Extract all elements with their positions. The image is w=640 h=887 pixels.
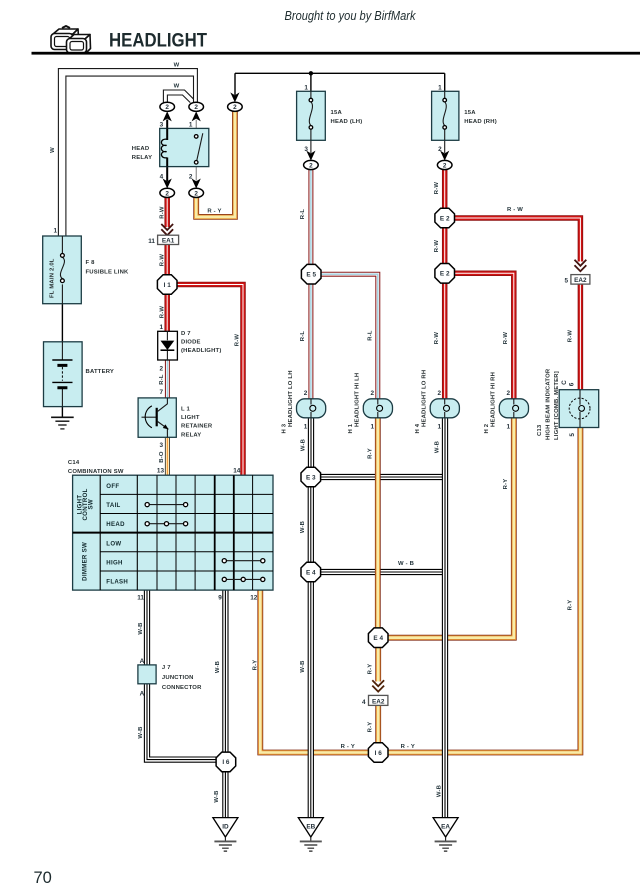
wire W-B combination switch pin9 to I6	[222, 590, 228, 752]
svg-text:TAIL: TAIL	[106, 502, 120, 509]
svg-text:1: 1	[507, 423, 511, 430]
wire W-B E3 branch to H4 ground line	[320, 474, 447, 480]
fuse 15A HEAD (RH)	[432, 91, 459, 140]
svg-text:SW: SW	[88, 499, 95, 509]
svg-text:R-L: R-L	[300, 331, 306, 342]
svg-text:C13: C13	[537, 424, 543, 436]
svg-text:C14: C14	[68, 460, 80, 466]
svg-text:FL MAIN 2.0L: FL MAIN 2.0L	[50, 258, 56, 298]
node E2 upper	[435, 208, 455, 228]
svg-text:FUSIBLE LINK: FUSIBLE LINK	[86, 269, 130, 275]
svg-text:W-B: W-B	[436, 785, 442, 797]
svg-text:L 1: L 1	[181, 407, 191, 413]
connector 2 below fuse LH	[304, 160, 319, 169]
fuse 15A HEAD (LH)	[297, 91, 326, 140]
svg-text:3: 3	[160, 121, 164, 128]
junction dot fuse rail	[309, 71, 313, 75]
svg-text:EB: EB	[306, 823, 315, 830]
wire R-Y E4 branch to headlight H2	[388, 418, 514, 638]
svg-text:I 6: I 6	[222, 759, 230, 766]
svg-text:C: C	[561, 380, 568, 385]
wire R-Y I6 to C13	[388, 428, 581, 753]
wire W feed from battery area to head relay connectors	[58, 69, 197, 236]
svg-text:11: 11	[148, 238, 155, 245]
svg-text:R-W: R-W	[159, 254, 165, 267]
wire stem relay pin3	[166, 120, 168, 182]
svg-text:DIMMER SW: DIMMER SW	[82, 542, 89, 581]
svg-text:R-L: R-L	[159, 374, 165, 385]
svg-text:13: 13	[157, 468, 165, 475]
svg-text:7: 7	[159, 389, 163, 396]
svg-text:R-W: R-W	[159, 206, 165, 219]
connector EA2 box right	[571, 275, 590, 285]
svg-text:A: A	[140, 690, 145, 697]
svg-text:15A: 15A	[464, 110, 476, 116]
svg-text:R - Y: R - Y	[207, 209, 221, 215]
wire fusible link to battery	[61, 304, 63, 342]
svg-text:1: 1	[189, 121, 193, 128]
wire R-W I1 to diode D7	[164, 294, 170, 332]
wire R-Y E4 to EA2	[375, 647, 381, 681]
svg-text:2: 2	[189, 173, 193, 180]
svg-text:W-B: W-B	[215, 661, 221, 673]
svg-text:RETAINER: RETAINER	[181, 424, 213, 430]
svg-text:R-Y: R-Y	[368, 664, 374, 675]
svg-text:2: 2	[438, 146, 442, 153]
svg-text:2: 2	[371, 390, 375, 397]
wire R-W EA1 to I1	[164, 244, 170, 275]
wire battery to ground	[61, 407, 63, 418]
svg-text:W-B: W-B	[300, 660, 306, 672]
svg-text:EA2: EA2	[574, 277, 587, 284]
arrow up into relay top right connector	[192, 111, 201, 121]
svg-text:W-B: W-B	[138, 726, 144, 738]
svg-text:4: 4	[160, 173, 164, 180]
svg-text:1: 1	[437, 423, 441, 430]
svg-text:15A: 15A	[331, 110, 343, 116]
svg-text:1: 1	[304, 423, 308, 430]
headlight H2 HI RH lamp	[499, 399, 528, 418]
wire R-Y EA2 to I6	[375, 706, 381, 743]
wire R-W E2 to E2	[442, 228, 448, 264]
ground EA	[433, 818, 458, 852]
combination switch contacts HIGH	[224, 560, 262, 562]
diode D7	[158, 331, 178, 360]
svg-text:2: 2	[309, 162, 313, 169]
svg-text:DIODE: DIODE	[181, 340, 201, 346]
svg-text:J 7: J 7	[162, 665, 171, 671]
svg-text:4: 4	[362, 699, 366, 706]
svg-text:RELAY: RELAY	[132, 155, 152, 161]
wire W-B I6 to ground ID	[222, 772, 228, 818]
wire R-L fuse LH to E5	[308, 170, 313, 265]
svg-text:F 8: F 8	[86, 260, 96, 266]
svg-text:R-W: R-W	[503, 332, 509, 345]
svg-text:HEAD: HEAD	[132, 146, 150, 152]
arrow down into relay bottom right connector	[192, 179, 201, 189]
arrow down into fuse RH connector	[440, 151, 449, 161]
svg-text:I 1: I 1	[164, 282, 172, 289]
svg-text:EA: EA	[441, 823, 450, 830]
svg-text:3: 3	[159, 442, 163, 449]
svg-text:1: 1	[304, 84, 308, 91]
svg-text:R-L: R-L	[300, 209, 306, 220]
ground ID	[213, 818, 238, 852]
wire B-O relay L1 to combination switch pin13	[165, 437, 170, 475]
wire W-B E4 to ground EB	[308, 582, 314, 818]
arrow down into relay bottom left connector	[163, 179, 172, 189]
svg-text:E 4: E 4	[306, 569, 316, 576]
svg-text:E 4: E 4	[373, 635, 383, 642]
svg-text:6: 6	[568, 382, 575, 386]
svg-text:2: 2	[233, 104, 237, 111]
svg-text:R-L: R-L	[367, 330, 373, 341]
svg-text:W: W	[50, 147, 56, 153]
svg-text:Brought to you by BirfMark: Brought to you by BirfMark	[285, 9, 417, 23]
svg-text:5: 5	[564, 277, 568, 284]
wire R-L E5 to headlight H3	[308, 284, 313, 399]
svg-text:E 3: E 3	[306, 474, 316, 481]
wire R-W E2 to headlight H4	[442, 283, 448, 399]
wire R-W relay pin4 to EA1	[164, 197, 170, 227]
svg-text:1: 1	[438, 84, 442, 91]
svg-text:R-Y: R-Y	[368, 722, 374, 733]
combination switch contacts HEAD	[147, 523, 185, 525]
arrow down into feed connector	[230, 92, 239, 102]
node E4 left	[301, 562, 321, 582]
wire stem relay pin1 and pin2	[195, 120, 197, 181]
svg-text:I 6: I 6	[375, 750, 383, 757]
wire W-B E3 to E4	[308, 487, 314, 563]
svg-text:11: 11	[137, 595, 144, 602]
wire W-B headlight H3 to E3	[308, 418, 314, 468]
svg-text:3: 3	[304, 146, 308, 153]
svg-text:OFF: OFF	[106, 483, 119, 490]
wire R-W I1 branch to combination switch pin14	[177, 285, 243, 476]
battery ground	[51, 417, 74, 429]
svg-text:R-W: R-W	[568, 330, 574, 343]
svg-text:HEADLIGHT LO LH: HEADLIGHT LO LH	[288, 370, 294, 427]
node E3	[301, 467, 321, 487]
svg-text:D 7: D 7	[181, 331, 191, 337]
svg-text:2: 2	[304, 390, 308, 397]
svg-text:COMBINATION SW: COMBINATION SW	[68, 469, 124, 475]
svg-text:1: 1	[53, 227, 57, 234]
svg-text:R-W: R-W	[434, 182, 440, 195]
svg-text:HIGH BEAM INDICATOR: HIGH BEAM INDICATOR	[546, 368, 552, 440]
wire R-Y head relay pin2 loop	[196, 111, 235, 217]
head relay coil	[161, 139, 167, 158]
svg-text:5: 5	[569, 433, 576, 437]
connector EA1 box	[158, 235, 179, 245]
connector EA2 box bottom	[369, 695, 388, 705]
chevron arrow R-W into EA2 right	[575, 260, 587, 271]
svg-text:2: 2	[194, 190, 198, 197]
svg-text:R-W: R-W	[159, 306, 165, 319]
svg-text:2: 2	[159, 366, 163, 373]
svg-text:12: 12	[250, 595, 258, 602]
svg-text:HEADLIGHT HI LH: HEADLIGHT HI LH	[355, 373, 361, 427]
svg-text:HEAD: HEAD	[106, 521, 125, 528]
combination switch C14 table	[73, 475, 273, 590]
combination switch contacts FLASH	[224, 578, 262, 580]
combination switch contacts TAIL	[147, 504, 185, 506]
svg-text:E 5: E 5	[306, 272, 316, 279]
connector 2 relay top left	[160, 102, 175, 111]
chevron arrow R-Y into EA2 bottom	[372, 680, 384, 691]
wire W-B E4 branch to H4 ground line	[320, 569, 447, 575]
svg-text:R - Y: R - Y	[341, 744, 355, 750]
junction connector J7 box	[138, 665, 156, 684]
svg-text:R-W: R-W	[434, 332, 440, 345]
node I1	[157, 275, 177, 295]
ground EB	[298, 818, 323, 852]
wire W loop between relay connectors	[163, 90, 193, 103]
wire R-W E2 branch to EA2 and C13	[454, 218, 580, 390]
svg-text:FLASH: FLASH	[106, 579, 128, 586]
chevron arrow R-W into EA1	[161, 224, 173, 235]
connector 2 feed to R-Y	[228, 102, 243, 111]
wire R-W fuse RH to E2	[442, 170, 448, 209]
svg-text:R-Y: R-Y	[503, 479, 509, 490]
svg-text:W-B: W-B	[138, 622, 144, 634]
svg-text:2: 2	[165, 104, 169, 111]
wire W-B headlight H4 to ground EA	[442, 418, 448, 818]
head relay box	[160, 128, 209, 166]
svg-text:14: 14	[233, 468, 241, 475]
wire R-Y headlight H1 to E4	[375, 418, 381, 628]
svg-text:EA1: EA1	[162, 238, 175, 245]
svg-text:W-B: W-B	[434, 441, 440, 453]
svg-text:W: W	[174, 84, 180, 90]
light retainer relay L1	[138, 398, 176, 437]
wire R-W E2 branch to headlight H2	[454, 273, 514, 399]
svg-text:R-Y: R-Y	[253, 660, 259, 671]
svg-text:W-B: W-B	[214, 790, 220, 802]
svg-text:1: 1	[159, 324, 163, 331]
svg-text:(HEADLIGHT): (HEADLIGHT)	[181, 348, 221, 354]
svg-text:LIGHT: LIGHT	[181, 415, 200, 421]
high beam indicator C13 box	[559, 390, 599, 428]
svg-text:HEADLIGHT HI RH: HEADLIGHT HI RH	[491, 372, 497, 427]
svg-text:HEAD (RH): HEAD (RH)	[464, 119, 497, 125]
svg-text:2: 2	[437, 390, 441, 397]
headlight H1 HI LH lamp	[363, 399, 392, 418]
svg-text:2: 2	[194, 104, 198, 111]
svg-text:W-B: W-B	[300, 521, 306, 533]
svg-text:H 1: H 1	[348, 423, 354, 433]
svg-text:R - W: R - W	[507, 207, 523, 213]
svg-text:CONNECTOR: CONNECTOR	[162, 685, 202, 691]
wire R-L E5 branch to headlight H1	[321, 274, 378, 399]
svg-text:LIGHT [COMB. METER]: LIGHT [COMB. METER]	[554, 371, 560, 440]
svg-text:E 2: E 2	[440, 215, 450, 222]
connector 2 relay bottom right	[189, 188, 204, 197]
svg-text:JUNCTION: JUNCTION	[162, 675, 194, 681]
svg-text:W-B: W-B	[300, 439, 306, 451]
svg-text:2: 2	[507, 390, 511, 397]
header rule	[32, 52, 640, 55]
svg-text:HEAD (LH): HEAD (LH)	[331, 119, 363, 125]
svg-text:W - B: W - B	[398, 561, 414, 567]
svg-text:2: 2	[443, 162, 447, 169]
svg-text:R - Y: R - Y	[401, 744, 415, 750]
svg-text:E 2: E 2	[440, 271, 450, 278]
wire stem fuse RH pin2	[444, 140, 446, 153]
svg-text:EA2: EA2	[372, 698, 385, 705]
connector 2 relay top right	[189, 102, 204, 111]
headlight H3 LO LH lamp	[297, 399, 326, 418]
node E2 lower	[435, 264, 455, 284]
svg-text:HEADLIGHT: HEADLIGHT	[109, 30, 207, 51]
connector 2 below fuse RH	[437, 160, 452, 169]
svg-text:70: 70	[34, 869, 52, 887]
svg-text:H 3: H 3	[281, 423, 287, 433]
headlight icon	[51, 26, 91, 53]
head relay switch	[197, 133, 203, 160]
node E5	[301, 264, 321, 284]
svg-text:LOW: LOW	[106, 540, 121, 547]
svg-text:HEADLIGHT LO RH: HEADLIGHT LO RH	[422, 370, 428, 427]
svg-text:R-W: R-W	[434, 240, 440, 253]
svg-text:W: W	[174, 63, 180, 69]
svg-text:ID: ID	[222, 823, 229, 830]
battery	[44, 342, 83, 407]
svg-text:B-O: B-O	[159, 451, 165, 463]
wire R-L diode D7 to relay L1	[165, 360, 170, 398]
fusible link F8 box	[43, 236, 82, 304]
headlight H4 LO RH lamp	[430, 399, 459, 418]
svg-text:H 4: H 4	[415, 423, 421, 433]
wire stem fuse LH pin3	[310, 140, 312, 153]
svg-text:BATTERY: BATTERY	[86, 369, 115, 375]
arrow down into fuse LH connector	[306, 151, 315, 161]
svg-text:R-Y: R-Y	[367, 448, 373, 459]
wire black fuse feed rail	[235, 73, 445, 95]
node E4 right	[368, 628, 388, 648]
connector 2 relay bottom left	[160, 188, 175, 197]
svg-text:R-Y: R-Y	[568, 600, 574, 611]
wire W-B combination switch pin11 through J7 to I6	[147, 590, 217, 760]
svg-text:HIGH: HIGH	[106, 559, 122, 566]
svg-text:H 2: H 2	[484, 423, 490, 433]
svg-text:RELAY: RELAY	[181, 432, 201, 438]
arrow up into relay top left connector	[163, 111, 172, 121]
svg-text:9: 9	[218, 595, 222, 602]
svg-text:R-W: R-W	[234, 334, 240, 347]
node I6 right	[368, 743, 388, 763]
node I6 left	[216, 752, 236, 772]
svg-text:A: A	[140, 658, 145, 665]
wire R-Y combination switch pin12 to I6	[260, 590, 368, 752]
svg-text:2: 2	[165, 190, 169, 197]
svg-text:1: 1	[371, 423, 375, 430]
